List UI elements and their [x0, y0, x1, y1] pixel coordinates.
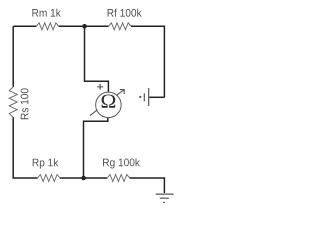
wire top-left horizontal segment	[13, 25, 36, 27]
node A junction dot	[82, 24, 87, 29]
wire meter bottom to node B	[84, 117, 108, 178]
resistor Rf 100k	[109, 23, 131, 30]
label Rs 100	[21, 88, 29, 119]
wire battery stub	[149, 96, 164, 98]
label Rm 1k	[32, 9, 60, 17]
wire Rp to node B	[60, 177, 84, 179]
wire left side bottom	[13, 117, 37, 178]
battery B1 long plate	[148, 88, 150, 106]
battery open terminal dot	[139, 96, 141, 98]
wire Rg to ground corner	[130, 178, 165, 193]
label Rp 1k	[33, 158, 59, 168]
ground dot 3	[163, 201, 165, 203]
wire left side top	[12, 26, 14, 87]
ground line 2	[160, 197, 169, 199]
battery B1 short plate	[143, 93, 145, 101]
meter omega symbol	[102, 94, 116, 107]
meter arrow shaft	[90, 90, 124, 116]
label Rf 100k	[108, 9, 142, 17]
resistor Rp 1k	[38, 175, 60, 182]
resistor Rs 100	[9, 87, 17, 117]
wire Rm to node A	[59, 25, 85, 27]
meter plus sign	[97, 84, 103, 90]
wire node B to Rg	[84, 177, 108, 179]
wire node A to Rf	[85, 25, 109, 27]
wire Rf to top-right corner down to battery	[131, 26, 164, 97]
meter M1 circle	[96, 92, 122, 118]
wire node A to meter top	[85, 26, 109, 92]
node B junction dot	[81, 176, 86, 181]
resistor Rm 1k	[36, 23, 58, 30]
ground line 1	[156, 193, 174, 195]
label Rg 100k	[103, 158, 140, 168]
resistor Rg 100k	[107, 175, 129, 182]
meter arrowhead	[120, 90, 124, 94]
